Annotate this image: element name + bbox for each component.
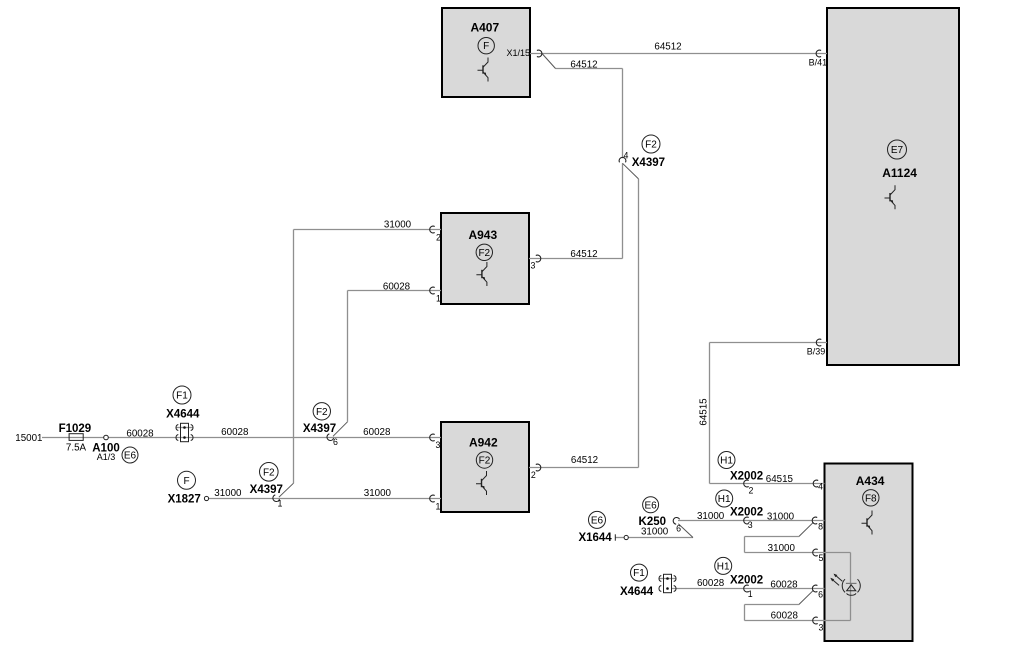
svg-text:1: 1: [748, 589, 753, 599]
svg-text:X4644: X4644: [620, 586, 654, 598]
svg-text:8: 8: [818, 521, 823, 531]
svg-text:A407: A407: [470, 20, 499, 34]
svg-text:31000: 31000: [697, 511, 725, 522]
svg-text:B/39: B/39: [807, 347, 826, 357]
svg-text:A943: A943: [468, 228, 497, 242]
svg-text:31000: 31000: [641, 527, 669, 538]
svg-text:3: 3: [748, 520, 753, 530]
svg-text:F: F: [183, 476, 189, 487]
svg-text:X4397: X4397: [303, 423, 336, 435]
svg-text:4: 4: [818, 482, 823, 492]
svg-text:X2002: X2002: [730, 470, 763, 482]
svg-text:2: 2: [531, 470, 536, 480]
svg-text:F2: F2: [263, 467, 275, 478]
svg-text:H1: H1: [717, 561, 730, 572]
svg-text:X2002: X2002: [730, 575, 763, 587]
svg-text:64512: 64512: [570, 59, 597, 70]
svg-text:6: 6: [333, 437, 338, 447]
svg-text:60028: 60028: [363, 427, 391, 438]
svg-text:F1: F1: [176, 391, 188, 402]
svg-text:31000: 31000: [364, 488, 392, 499]
svg-text:31000: 31000: [214, 488, 242, 499]
svg-text:1: 1: [436, 501, 441, 511]
svg-text:31000: 31000: [384, 219, 412, 230]
svg-text:4: 4: [623, 151, 628, 161]
svg-text:F2: F2: [316, 407, 328, 418]
svg-text:A434: A434: [856, 474, 885, 488]
svg-text:64515: 64515: [766, 474, 794, 485]
svg-text:64512: 64512: [570, 249, 597, 260]
svg-text:64515: 64515: [699, 398, 710, 426]
svg-text:64512: 64512: [571, 455, 598, 466]
svg-text:3: 3: [818, 622, 823, 632]
svg-text:5: 5: [818, 553, 823, 563]
svg-text:60028: 60028: [771, 611, 799, 622]
svg-text:A942: A942: [469, 436, 498, 450]
svg-text:7.5A: 7.5A: [66, 443, 87, 454]
svg-text:15001: 15001: [15, 433, 42, 444]
svg-text:F2: F2: [479, 456, 491, 467]
svg-text:X4397: X4397: [250, 484, 283, 496]
svg-text:60028: 60028: [697, 578, 725, 589]
svg-text:X1827: X1827: [168, 494, 201, 506]
svg-text:60028: 60028: [383, 281, 411, 292]
svg-text:F1029: F1029: [59, 423, 92, 435]
svg-text:F2: F2: [478, 248, 490, 259]
svg-text:E6: E6: [644, 500, 657, 511]
svg-text:6: 6: [818, 590, 823, 600]
svg-text:2: 2: [749, 486, 754, 496]
svg-text:X4644: X4644: [166, 409, 200, 421]
svg-text:F8: F8: [865, 493, 877, 504]
svg-text:H1: H1: [720, 456, 733, 467]
svg-text:2: 2: [436, 232, 441, 242]
svg-text:F1: F1: [633, 568, 645, 579]
svg-text:1: 1: [278, 498, 283, 508]
svg-text:H1: H1: [718, 494, 731, 505]
svg-text:E7: E7: [891, 145, 904, 156]
svg-text:F: F: [483, 41, 489, 52]
svg-text:X4397: X4397: [632, 157, 665, 169]
svg-text:B/41: B/41: [809, 57, 828, 67]
svg-text:E6: E6: [124, 451, 137, 462]
svg-text:X1644: X1644: [578, 532, 612, 544]
svg-text:31000: 31000: [767, 511, 795, 522]
svg-text:A1124: A1124: [882, 166, 917, 180]
svg-text:E6: E6: [591, 515, 604, 526]
svg-text:3: 3: [436, 440, 441, 450]
svg-text:X2002: X2002: [730, 506, 763, 518]
svg-text:1: 1: [436, 294, 441, 304]
svg-text:A1/3: A1/3: [97, 452, 116, 462]
svg-text:F2: F2: [645, 140, 657, 151]
svg-text:31000: 31000: [768, 543, 796, 554]
svg-text:6: 6: [676, 523, 681, 533]
svg-text:3: 3: [531, 261, 536, 271]
svg-text:60028: 60028: [126, 428, 154, 439]
svg-text:60028: 60028: [221, 427, 249, 438]
svg-text:60028: 60028: [770, 579, 798, 590]
svg-text:X1/15: X1/15: [506, 48, 530, 58]
svg-text:64512: 64512: [654, 41, 681, 52]
